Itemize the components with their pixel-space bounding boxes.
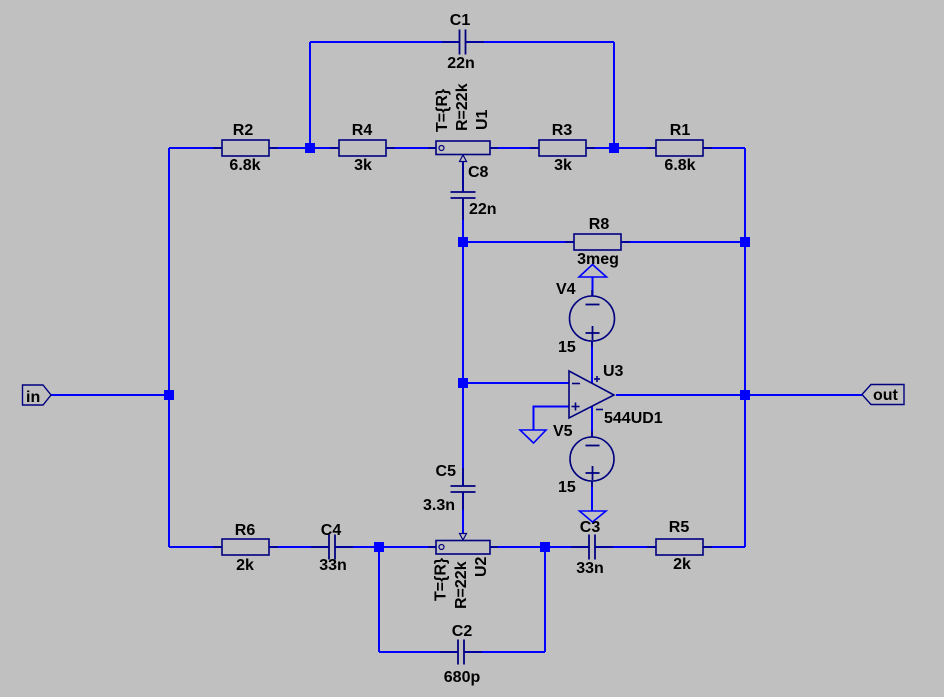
wire: bottom row <box>169 546 745 548</box>
svg-text:R4: R4 <box>352 122 373 139</box>
svg-text:R5: R5 <box>669 519 690 536</box>
resistor R4 <box>330 122 395 174</box>
svg-text:T={R}: T={R} <box>433 558 450 601</box>
junction node C8/R8 <box>458 237 468 247</box>
svg-text:C4: C4 <box>321 522 342 539</box>
svg-text:R3: R3 <box>552 122 573 139</box>
op-amp U3 <box>569 363 663 427</box>
svg-text:T={R}: T={R} <box>434 89 451 132</box>
svg-text:3meg: 3meg <box>577 251 619 268</box>
svg-text:3k: 3k <box>554 157 572 174</box>
resistor R1 <box>647 122 712 174</box>
wire: V4 top to arrow <box>592 277 594 296</box>
svg-text:R=22k: R=22k <box>453 561 470 609</box>
svg-text:C5: C5 <box>436 463 457 480</box>
wire: left rail <box>168 148 170 547</box>
junction node R8 right <box>740 237 750 247</box>
resistor R2 <box>213 122 278 174</box>
rail arrow below V5 <box>580 511 607 522</box>
svg-text:33n: 33n <box>576 560 604 577</box>
wire: op-amp inverting input <box>463 382 569 384</box>
svg-text:C8: C8 <box>468 164 489 181</box>
resistor R3 <box>530 122 595 174</box>
wire: right rail <box>744 148 746 547</box>
wire: middle column <box>462 161 464 534</box>
capacitor C1 <box>442 12 484 72</box>
svg-text:C3: C3 <box>580 519 601 536</box>
wire: R8 feedback <box>463 241 745 243</box>
svg-text:2k: 2k <box>673 556 691 573</box>
svg-text:22n: 22n <box>469 201 497 218</box>
svg-text:680p: 680p <box>444 669 481 686</box>
svg-text:V5: V5 <box>553 423 573 440</box>
rail arrow above V4 <box>579 265 607 278</box>
wire: C2 loop <box>379 547 545 652</box>
junction node C2 left <box>374 542 384 552</box>
resistor R5 <box>647 519 712 573</box>
svg-text:15: 15 <box>558 339 576 356</box>
svg-text:R2: R2 <box>233 122 254 139</box>
svg-text:out: out <box>873 387 899 404</box>
potentiometer U1 <box>428 83 498 161</box>
capacitor C4 <box>311 522 353 574</box>
junction node C1 right <box>609 143 619 153</box>
voltage source V5 <box>553 423 614 496</box>
resistor R8 <box>565 216 630 268</box>
svg-text:U2: U2 <box>473 556 490 577</box>
ground <box>520 430 546 443</box>
junction node inverting input <box>458 378 468 388</box>
resistor R6 <box>213 522 278 574</box>
junction node C1 left <box>305 143 315 153</box>
capacitor C5 <box>423 463 476 514</box>
junction node in <box>164 390 174 400</box>
svg-text:R1: R1 <box>670 122 691 139</box>
svg-text:3k: 3k <box>354 157 372 174</box>
wire: output lead <box>616 394 862 396</box>
wire: V5 bottom to arrow <box>591 481 593 511</box>
svg-text:R8: R8 <box>589 216 610 233</box>
svg-text:R6: R6 <box>235 522 256 539</box>
svg-text:R=22k: R=22k <box>454 83 471 131</box>
port in <box>23 385 52 406</box>
svg-text:33n: 33n <box>319 557 347 574</box>
svg-text:22n: 22n <box>447 55 475 72</box>
wire: C1 feedback loop <box>310 42 614 148</box>
wire: V4 to op-amp positive supply <box>591 341 593 383</box>
svg-text:6.8k: 6.8k <box>229 157 260 174</box>
svg-text:15: 15 <box>558 479 576 496</box>
capacitor C2 <box>440 623 482 686</box>
wire: op-amp negative supply to V5 <box>591 406 593 437</box>
svg-text:U1: U1 <box>474 109 491 130</box>
svg-text:3.3n: 3.3n <box>423 497 455 514</box>
svg-text:in: in <box>26 389 40 406</box>
svg-text:544UD1: 544UD1 <box>604 410 663 427</box>
port out <box>862 385 904 405</box>
svg-text:V4: V4 <box>556 281 576 298</box>
voltage source V4 <box>556 281 615 356</box>
svg-text:C2: C2 <box>452 623 473 640</box>
junction node output <box>740 390 750 400</box>
potentiometer U2 <box>428 534 498 610</box>
junction node C2 right <box>540 542 550 552</box>
capacitor C3 <box>571 519 613 577</box>
svg-text:C1: C1 <box>450 12 471 29</box>
svg-text:2k: 2k <box>236 557 254 574</box>
svg-text:6.8k: 6.8k <box>664 157 695 174</box>
capacitor C8 <box>451 162 497 220</box>
wire: ground jog <box>534 406 570 431</box>
wire: top row <box>169 147 745 149</box>
svg-text:U3: U3 <box>603 363 624 380</box>
wire: input lead <box>51 394 169 396</box>
